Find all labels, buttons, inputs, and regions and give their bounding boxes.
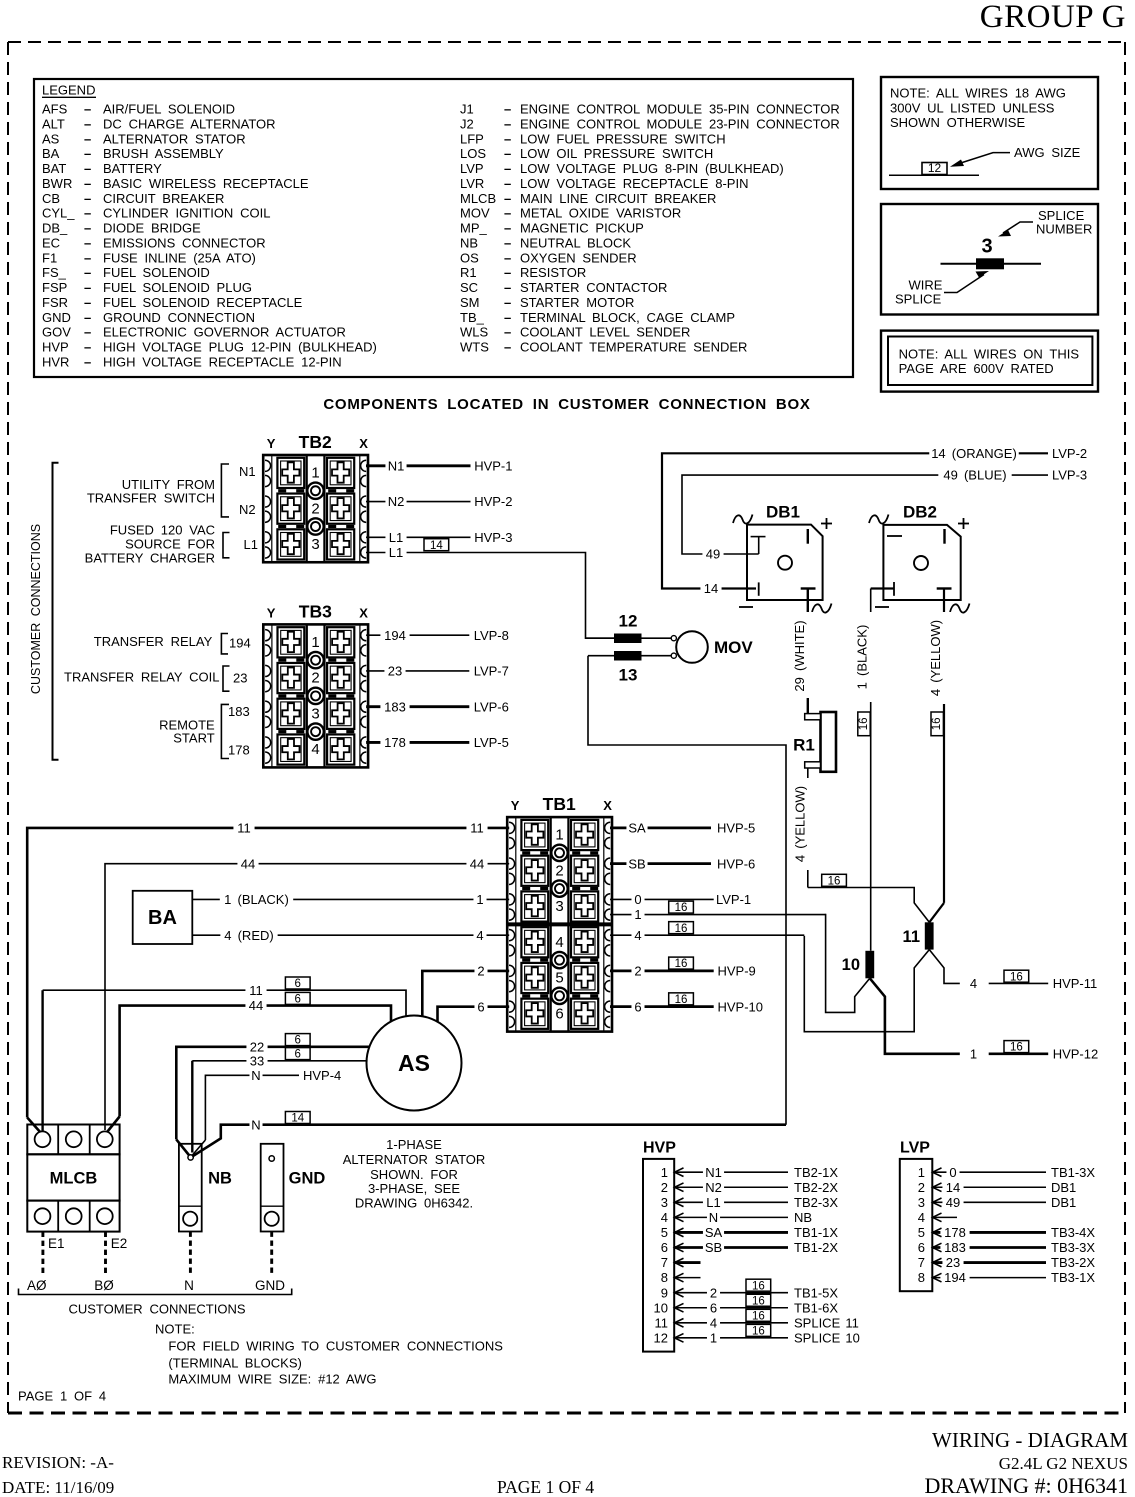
svg-text:LVP-2: LVP-2 — [1052, 446, 1087, 461]
svg-text:MOV: MOV — [714, 638, 753, 657]
svg-text:NOTE: ALL WIRES ON THIS: NOTE: ALL WIRES ON THIS — [899, 347, 1080, 362]
svg-text:3: 3 — [918, 1195, 925, 1210]
svg-text:4: 4 — [970, 976, 977, 991]
svg-text:1: 1 — [555, 827, 563, 844]
svg-text:183: 183 — [384, 699, 406, 714]
svg-text:SC: SC — [460, 280, 478, 295]
svg-text:FOR FIELD WIRING TO CUSTOMER C: FOR FIELD WIRING TO CUSTOMER CONNECTIONS — [168, 1339, 503, 1354]
svg-text:X: X — [359, 605, 368, 620]
svg-text:NOTE:: NOTE: — [155, 1321, 195, 1336]
svg-text:6: 6 — [661, 1240, 668, 1255]
svg-text:3-PHASE, SEE: 3-PHASE, SEE — [368, 1181, 460, 1196]
svg-text:OS: OS — [460, 250, 479, 265]
svg-text:N2: N2 — [705, 1180, 722, 1195]
svg-text:TB3-1X: TB3-1X — [1051, 1270, 1095, 1285]
svg-text:N1: N1 — [388, 458, 405, 473]
svg-text:MAIN LINE CIRCUIT BREAKER: MAIN LINE CIRCUIT BREAKER — [520, 191, 716, 206]
svg-text:–: – — [504, 295, 511, 310]
svg-text:–: – — [504, 235, 511, 250]
svg-text:GND: GND — [289, 1170, 326, 1188]
svg-text:4: 4 — [476, 928, 483, 943]
wire 4 (yellow) into splice 11 — [929, 903, 944, 922]
alternator stator AS — [367, 1016, 462, 1111]
svg-text:2: 2 — [311, 500, 319, 517]
svg-text:23: 23 — [388, 664, 402, 679]
svg-text:HVP-1: HVP-1 — [474, 458, 512, 473]
customer connections bottom bracket — [19, 1289, 292, 1295]
wire splice example — [941, 263, 1042, 265]
svg-text:183: 183 — [944, 1240, 966, 1255]
svg-text:16: 16 — [752, 1310, 765, 1322]
wire 183 to LVP-6 — [366, 705, 469, 708]
svg-text:0: 0 — [634, 892, 641, 907]
svg-text:LEGEND: LEGEND — [42, 83, 95, 98]
note box: wire splice symbol — [881, 204, 1098, 315]
svg-text:10: 10 — [654, 1300, 668, 1315]
svg-text:NEUTRAL BLOCK: NEUTRAL BLOCK — [520, 235, 631, 250]
svg-text:LOS: LOS — [460, 146, 486, 161]
svg-text:AIR/FUEL SOLENOID: AIR/FUEL SOLENOID — [103, 102, 235, 117]
svg-text:LVP: LVP — [900, 1140, 930, 1157]
wire 1 (black) DB2 to splice 10 — [871, 587, 894, 589]
svg-text:X: X — [359, 436, 368, 451]
svg-text:6: 6 — [295, 1049, 301, 1061]
wire L1 to HVP-3 — [366, 536, 471, 538]
resistor R1 — [793, 712, 836, 772]
svg-text:16: 16 — [1010, 971, 1023, 983]
svg-text:6: 6 — [918, 1240, 925, 1255]
wire L1 to MOV (via splice 14 awg) — [366, 553, 614, 639]
svg-text:TB3: TB3 — [299, 601, 332, 621]
wire N NB dashed — [189, 1232, 192, 1276]
svg-text:L1: L1 — [706, 1195, 720, 1210]
svg-text:–: – — [84, 340, 91, 355]
svg-text:METAL OXIDE VARISTOR: METAL OXIDE VARISTOR — [520, 206, 681, 221]
svg-text:NUMBER: NUMBER — [1036, 222, 1092, 237]
wire 1 (black) BA to TB1-3 — [192, 898, 509, 900]
svg-text:LVR: LVR — [460, 176, 484, 191]
svg-text:COOLANT TEMPERATURE SENDER: COOLANT TEMPERATURE SENDER — [520, 340, 747, 355]
svg-text:GOV: GOV — [42, 325, 71, 340]
brush assembly BA — [133, 891, 193, 944]
svg-text:14 (ORANGE): 14 (ORANGE) — [931, 446, 1017, 461]
svg-text:TB2: TB2 — [299, 432, 332, 452]
wire 2 to HVP-9 — [610, 970, 714, 973]
svg-text:DB2: DB2 — [903, 503, 937, 522]
svg-text:–: – — [504, 161, 511, 176]
svg-text:J2: J2 — [460, 116, 474, 131]
svg-text:BAT: BAT — [42, 161, 66, 176]
splice 11 to TB1-4 wire — [804, 936, 929, 1032]
svg-text:FSR: FSR — [42, 295, 68, 310]
svg-text:TERMINAL BLOCK, CAGE CLAMP: TERMINAL BLOCK, CAGE CLAMP — [520, 310, 735, 325]
svg-text:–: – — [84, 354, 91, 369]
svg-text:1: 1 — [661, 1165, 668, 1180]
svg-text:49 (BLUE): 49 (BLUE) — [943, 468, 1006, 483]
svg-text:LVP-8: LVP-8 — [474, 628, 509, 643]
svg-text:1: 1 — [634, 907, 641, 922]
svg-text:4 (YELLOW): 4 (YELLOW) — [793, 786, 808, 862]
svg-text:2: 2 — [311, 670, 319, 687]
svg-text:6: 6 — [710, 1300, 717, 1315]
svg-text:TB2-1X: TB2-1X — [794, 1165, 838, 1180]
svg-text:6: 6 — [634, 999, 641, 1014]
svg-text:SA: SA — [628, 821, 646, 836]
svg-text:BRUSH ASSEMBLY: BRUSH ASSEMBLY — [103, 146, 224, 161]
svg-text:N1: N1 — [239, 464, 256, 479]
wire E2 dashed — [104, 1232, 107, 1275]
svg-text:TB3-4X: TB3-4X — [1051, 1225, 1095, 1240]
svg-text:7: 7 — [661, 1255, 668, 1270]
svg-text:–: – — [84, 102, 91, 117]
wire 0 to LVP-1 — [610, 898, 714, 900]
svg-text:14: 14 — [704, 581, 718, 596]
svg-text:FS_: FS_ — [42, 265, 67, 280]
svg-text:COOLANT LEVEL SENDER: COOLANT LEVEL SENDER — [520, 325, 690, 340]
svg-text:16: 16 — [931, 717, 943, 730]
diode bridge DB2 — [869, 503, 970, 613]
svg-text:TB_: TB_ — [460, 310, 485, 325]
terminal block TB2 — [263, 432, 368, 562]
svg-text:1: 1 — [311, 465, 319, 482]
svg-text:3: 3 — [555, 898, 563, 915]
diode bridge DB1 — [733, 503, 832, 613]
terminal block TB3 — [263, 601, 368, 767]
svg-text:MLCB: MLCB — [50, 1170, 98, 1188]
svg-text:6: 6 — [295, 978, 301, 990]
svg-text:CIRCUIT BREAKER: CIRCUIT BREAKER — [103, 191, 224, 206]
svg-text:–: – — [504, 280, 511, 295]
svg-text:3: 3 — [311, 705, 319, 722]
svg-text:16: 16 — [828, 875, 841, 887]
svg-text:1: 1 — [311, 634, 319, 651]
splice 10 — [865, 951, 874, 979]
svg-text:DATE: 11/16/09: DATE: 11/16/09 — [2, 1478, 114, 1497]
svg-text:TRANSFER SWITCH: TRANSFER SWITCH — [87, 490, 215, 505]
svg-text:–: – — [84, 191, 91, 206]
svg-text:AFS: AFS — [42, 102, 68, 117]
svg-text:TB3-2X: TB3-2X — [1051, 1255, 1095, 1270]
svg-text:22: 22 — [250, 1039, 264, 1054]
svg-text:LFP: LFP — [460, 131, 484, 146]
svg-text:HVP-2: HVP-2 — [474, 494, 512, 509]
svg-text:LOW VOLTAGE PLUG 8-PIN (BULKHE: LOW VOLTAGE PLUG 8-PIN (BULKHEAD) — [520, 161, 784, 176]
svg-text:2: 2 — [918, 1180, 925, 1195]
terminal block TB1 — [507, 794, 612, 1032]
svg-text:FUEL SOLENOID RECEPTACLE: FUEL SOLENOID RECEPTACLE — [103, 295, 303, 310]
svg-text:1: 1 — [710, 1330, 717, 1345]
circuit breaker MLCB — [27, 1125, 119, 1232]
svg-text:GROUND CONNECTION: GROUND CONNECTION — [103, 310, 255, 325]
svg-text:–: – — [84, 325, 91, 340]
svg-text:3: 3 — [981, 236, 992, 258]
svg-text:29 (WHITE): 29 (WHITE) — [792, 620, 807, 691]
svg-text:TB2-2X: TB2-2X — [794, 1180, 838, 1195]
svg-text:LVP-7: LVP-7 — [474, 664, 509, 679]
svg-text:11: 11 — [249, 983, 263, 998]
svg-text:HVP-9: HVP-9 — [718, 964, 756, 979]
svg-text:DIODE BRIDGE: DIODE BRIDGE — [103, 221, 201, 236]
splice 13 — [588, 655, 673, 657]
svg-text:BA: BA — [42, 146, 60, 161]
svg-text:COMPONENTS LOCATED IN CUSTOMER: COMPONENTS LOCATED IN CUSTOMER CONNECTIO… — [323, 396, 810, 413]
svg-text:HVP-11: HVP-11 — [1053, 976, 1098, 991]
svg-text:5: 5 — [661, 1225, 668, 1240]
svg-text:11: 11 — [903, 928, 920, 946]
svg-text:3: 3 — [661, 1195, 668, 1210]
svg-text:F1: F1 — [42, 250, 57, 265]
wire 11 MLCB to AS — [41, 990, 43, 1131]
svg-text:ALT: ALT — [42, 116, 65, 131]
svg-text:Y: Y — [267, 605, 276, 620]
wire 6 to HVP-10 — [610, 1005, 714, 1008]
svg-text:Y: Y — [511, 798, 520, 813]
svg-text:4: 4 — [661, 1210, 668, 1225]
svg-text:4: 4 — [555, 934, 563, 951]
svg-text:14: 14 — [946, 1180, 960, 1195]
awg size leader arrow — [956, 153, 1010, 165]
svg-text:5: 5 — [918, 1225, 925, 1240]
svg-text:MLCB: MLCB — [460, 191, 496, 206]
svg-text:–: – — [84, 221, 91, 236]
svg-text:X: X — [603, 798, 612, 813]
svg-text:–: – — [504, 116, 511, 131]
splice 11 — [925, 922, 934, 949]
svg-text:–: – — [84, 265, 91, 280]
svg-text:11: 11 — [470, 821, 484, 836]
svg-text:SPLICE 10: SPLICE 10 — [794, 1330, 860, 1345]
svg-text:AØ: AØ — [27, 1278, 47, 1293]
note box: all wires 18 awg — [881, 77, 1098, 189]
svg-text:9: 9 — [661, 1285, 668, 1300]
svg-text:TB1-5X: TB1-5X — [794, 1285, 838, 1300]
wire 29 (white) DB1 to R1 — [807, 589, 809, 716]
svg-text:49: 49 — [946, 1195, 960, 1210]
svg-text:8: 8 — [918, 1270, 925, 1285]
svg-text:–: – — [504, 146, 511, 161]
svg-text:FUSE INLINE (25A ATO): FUSE INLINE (25A ATO) — [103, 250, 256, 265]
svg-text:16: 16 — [1010, 1042, 1023, 1054]
svg-text:HVP: HVP — [42, 340, 69, 355]
svg-text:LOW FUEL PRESSURE SWITCH: LOW FUEL PRESSURE SWITCH — [520, 131, 726, 146]
svg-text:TB1-6X: TB1-6X — [794, 1300, 838, 1315]
svg-text:FSP: FSP — [42, 280, 67, 295]
svg-text:1: 1 — [970, 1046, 977, 1061]
svg-text:–: – — [84, 250, 91, 265]
svg-text:SA: SA — [705, 1225, 723, 1240]
wire 4 to splice 11 — [610, 934, 804, 936]
svg-text:0: 0 — [949, 1165, 956, 1180]
svg-text:STARTER CONTACTOR: STARTER CONTACTOR — [520, 280, 667, 295]
svg-text:LOW VOLTAGE RECEPTACLE 8-PIN: LOW VOLTAGE RECEPTACLE 8-PIN — [520, 176, 748, 191]
svg-text:N2: N2 — [239, 502, 256, 517]
svg-text:1: 1 — [918, 1165, 925, 1180]
wire N1 to HVP-1 — [366, 464, 471, 467]
svg-text:23: 23 — [946, 1255, 960, 1270]
svg-text:7: 7 — [918, 1255, 925, 1270]
svg-text:2: 2 — [477, 964, 484, 979]
svg-text:FUEL SOLENOID: FUEL SOLENOID — [103, 265, 210, 280]
wire 4 (yellow) R1 down to splice 11 path — [807, 768, 809, 888]
wire 33 NB to AS — [191, 1061, 193, 1153]
svg-text:10: 10 — [842, 956, 860, 974]
splice 12 — [586, 637, 674, 639]
svg-text:SB: SB — [705, 1240, 722, 1255]
svg-text:2: 2 — [661, 1180, 668, 1195]
svg-text:3: 3 — [311, 536, 319, 553]
svg-text:44: 44 — [249, 998, 263, 1013]
svg-text:14: 14 — [430, 540, 443, 552]
svg-text:BATTERY: BATTERY — [103, 161, 162, 176]
svg-text:12: 12 — [619, 612, 638, 631]
svg-text:PAGE 1 OF 4: PAGE 1 OF 4 — [497, 1477, 594, 1497]
svg-text:4: 4 — [918, 1210, 925, 1225]
svg-text:HVP-5: HVP-5 — [717, 821, 755, 836]
svg-text:1 (BLACK): 1 (BLACK) — [224, 892, 289, 907]
svg-text:–: – — [84, 116, 91, 131]
svg-text:2: 2 — [710, 1285, 717, 1300]
svg-text:TRANSFER RELAY COIL: TRANSFER RELAY COIL — [64, 669, 219, 684]
svg-text:N: N — [184, 1278, 194, 1293]
svg-text:12: 12 — [928, 161, 942, 175]
svg-text:N1: N1 — [705, 1165, 722, 1180]
svg-text:300V UL LISTED UNLESS: 300V UL LISTED UNLESS — [890, 100, 1055, 115]
wire 11 MLCB to TB1-1 — [27, 828, 509, 1118]
svg-text:L1: L1 — [389, 530, 403, 545]
svg-text:–: – — [84, 176, 91, 191]
svg-text:HVP-4: HVP-4 — [303, 1068, 341, 1083]
svg-text:23: 23 — [233, 671, 247, 686]
svg-text:16: 16 — [752, 1325, 765, 1337]
svg-text:BWR: BWR — [42, 176, 72, 191]
svg-text:STARTER MOTOR: STARTER MOTOR — [520, 295, 634, 310]
splice 10 to TB1-1 wire — [826, 914, 870, 1013]
ground block GND — [261, 1144, 326, 1232]
svg-text:12: 12 — [654, 1330, 668, 1345]
svg-text:–: – — [504, 325, 511, 340]
svg-text:PAGE 1 OF 4: PAGE 1 OF 4 — [18, 1389, 106, 1404]
svg-text:MOV: MOV — [460, 206, 490, 221]
svg-text:–: – — [84, 280, 91, 295]
varistor MOV — [676, 631, 708, 663]
svg-text:TB1-1X: TB1-1X — [794, 1225, 838, 1240]
svg-text:HVP-3: HVP-3 — [474, 530, 512, 545]
svg-text:–: – — [84, 206, 91, 221]
svg-text:178: 178 — [384, 735, 406, 750]
wire GND dashed — [270, 1232, 273, 1276]
svg-text:HVP-10: HVP-10 — [718, 999, 764, 1014]
svg-text:13: 13 — [619, 666, 638, 685]
svg-text:DB1: DB1 — [1051, 1195, 1076, 1210]
svg-text:44: 44 — [241, 856, 255, 871]
svg-text:HVP-12: HVP-12 — [1053, 1046, 1099, 1061]
svg-text:EMISSIONS CONNECTOR: EMISSIONS CONNECTOR — [103, 235, 266, 250]
svg-text:LVP-5: LVP-5 — [474, 735, 509, 750]
splice 10 output to HVP-12 — [870, 978, 960, 1054]
svg-text:6: 6 — [295, 1035, 301, 1047]
wire 23 to LVP-7 — [366, 670, 469, 672]
svg-text:ENGINE CONTROL MODULE 23-PIN C: ENGINE CONTROL MODULE 23-PIN CONNECTOR — [520, 116, 840, 131]
svg-text:–: – — [84, 146, 91, 161]
svg-text:WTS: WTS — [460, 340, 489, 355]
customer connections bracket — [53, 463, 59, 760]
svg-text:11: 11 — [237, 821, 251, 836]
svg-text:SB: SB — [628, 856, 645, 871]
svg-text:CYLINDER IGNITION COIL: CYLINDER IGNITION COIL — [103, 206, 270, 221]
svg-text:SM: SM — [460, 295, 480, 310]
svg-text:GND: GND — [255, 1278, 285, 1293]
svg-text:HIGH VOLTAGE RECEPTACLE 12-PIN: HIGH VOLTAGE RECEPTACLE 12-PIN — [103, 354, 342, 369]
svg-text:4: 4 — [311, 741, 319, 758]
awg size 12 box — [889, 174, 979, 176]
svg-text:–: – — [84, 161, 91, 176]
svg-text:HIGH VOLTAGE PLUG 12-PIN (BULK: HIGH VOLTAGE PLUG 12-PIN (BULKHEAD) — [103, 340, 377, 355]
svg-text:J1: J1 — [460, 102, 474, 117]
svg-text:DB_: DB_ — [42, 221, 68, 236]
svg-text:–: – — [504, 131, 511, 146]
svg-text:178: 178 — [944, 1225, 966, 1240]
svg-text:R1: R1 — [460, 265, 477, 280]
svg-text:16: 16 — [675, 923, 688, 935]
svg-text:194: 194 — [229, 636, 251, 651]
svg-text:G2.4L G2 NEXUS: G2.4L G2 NEXUS — [999, 1454, 1128, 1473]
svg-text:AWG SIZE: AWG SIZE — [1014, 145, 1081, 160]
svg-text:TB1: TB1 — [543, 794, 576, 814]
svg-text:GND: GND — [42, 310, 71, 325]
svg-text:CUSTOMER CONNECTIONS: CUSTOMER CONNECTIONS — [68, 1302, 245, 1317]
wire N NB to HVP-4 — [205, 1075, 299, 1140]
svg-text:E2: E2 — [111, 1236, 128, 1251]
svg-text:LVP: LVP — [460, 161, 484, 176]
svg-text:NB: NB — [208, 1170, 232, 1188]
svg-text:E1: E1 — [48, 1236, 65, 1251]
svg-text:8: 8 — [661, 1270, 668, 1285]
svg-text:WIRING - DIAGRAM: WIRING - DIAGRAM — [932, 1428, 1128, 1452]
svg-text:2: 2 — [555, 862, 563, 879]
svg-text:16: 16 — [675, 994, 688, 1006]
svg-text:FUSED 120 VAC: FUSED 120 VAC — [110, 523, 215, 538]
svg-text:DB1: DB1 — [766, 503, 800, 522]
svg-text:16: 16 — [675, 958, 688, 970]
svg-text:ENGINE CONTROL MODULE 35-PIN C: ENGINE CONTROL MODULE 35-PIN CONNECTOR — [520, 102, 840, 117]
wire 44 MLCB to TB1-2 — [105, 864, 509, 1130]
svg-text:11: 11 — [655, 1315, 669, 1330]
svg-text:N: N — [709, 1210, 718, 1225]
svg-text:2: 2 — [634, 964, 641, 979]
svg-text:194: 194 — [384, 628, 406, 643]
wire 49 (blue) to LVP-3 — [682, 475, 1048, 554]
svg-text:Y: Y — [267, 436, 276, 451]
svg-text:SOURCE FOR: SOURCE FOR — [125, 537, 215, 552]
svg-text:194: 194 — [944, 1270, 966, 1285]
svg-text:TRANSFER RELAY: TRANSFER RELAY — [94, 634, 213, 649]
svg-text:16: 16 — [675, 902, 688, 914]
svg-text:N2: N2 — [388, 494, 405, 509]
neutral block NB — [179, 1144, 232, 1232]
svg-text:49: 49 — [706, 547, 720, 562]
svg-text:GROUP G: GROUP G — [980, 0, 1126, 35]
wire 14 (orange) to LVP-2 — [662, 453, 1048, 588]
svg-text:WIRE: WIRE — [909, 277, 943, 292]
svg-text:LOW OIL PRESSURE SWITCH: LOW OIL PRESSURE SWITCH — [520, 146, 713, 161]
svg-text:4: 4 — [710, 1315, 717, 1330]
splice 11 output to HVP-11 — [929, 950, 960, 984]
svg-text:TB1-2X: TB1-2X — [794, 1240, 838, 1255]
svg-text:SPLICE 11: SPLICE 11 — [794, 1315, 859, 1330]
svg-text:–: – — [504, 191, 511, 206]
wire 4 (red) BA to TB1-4 — [192, 934, 509, 936]
svg-text:DRAWING 0H6342.: DRAWING 0H6342. — [355, 1196, 473, 1211]
